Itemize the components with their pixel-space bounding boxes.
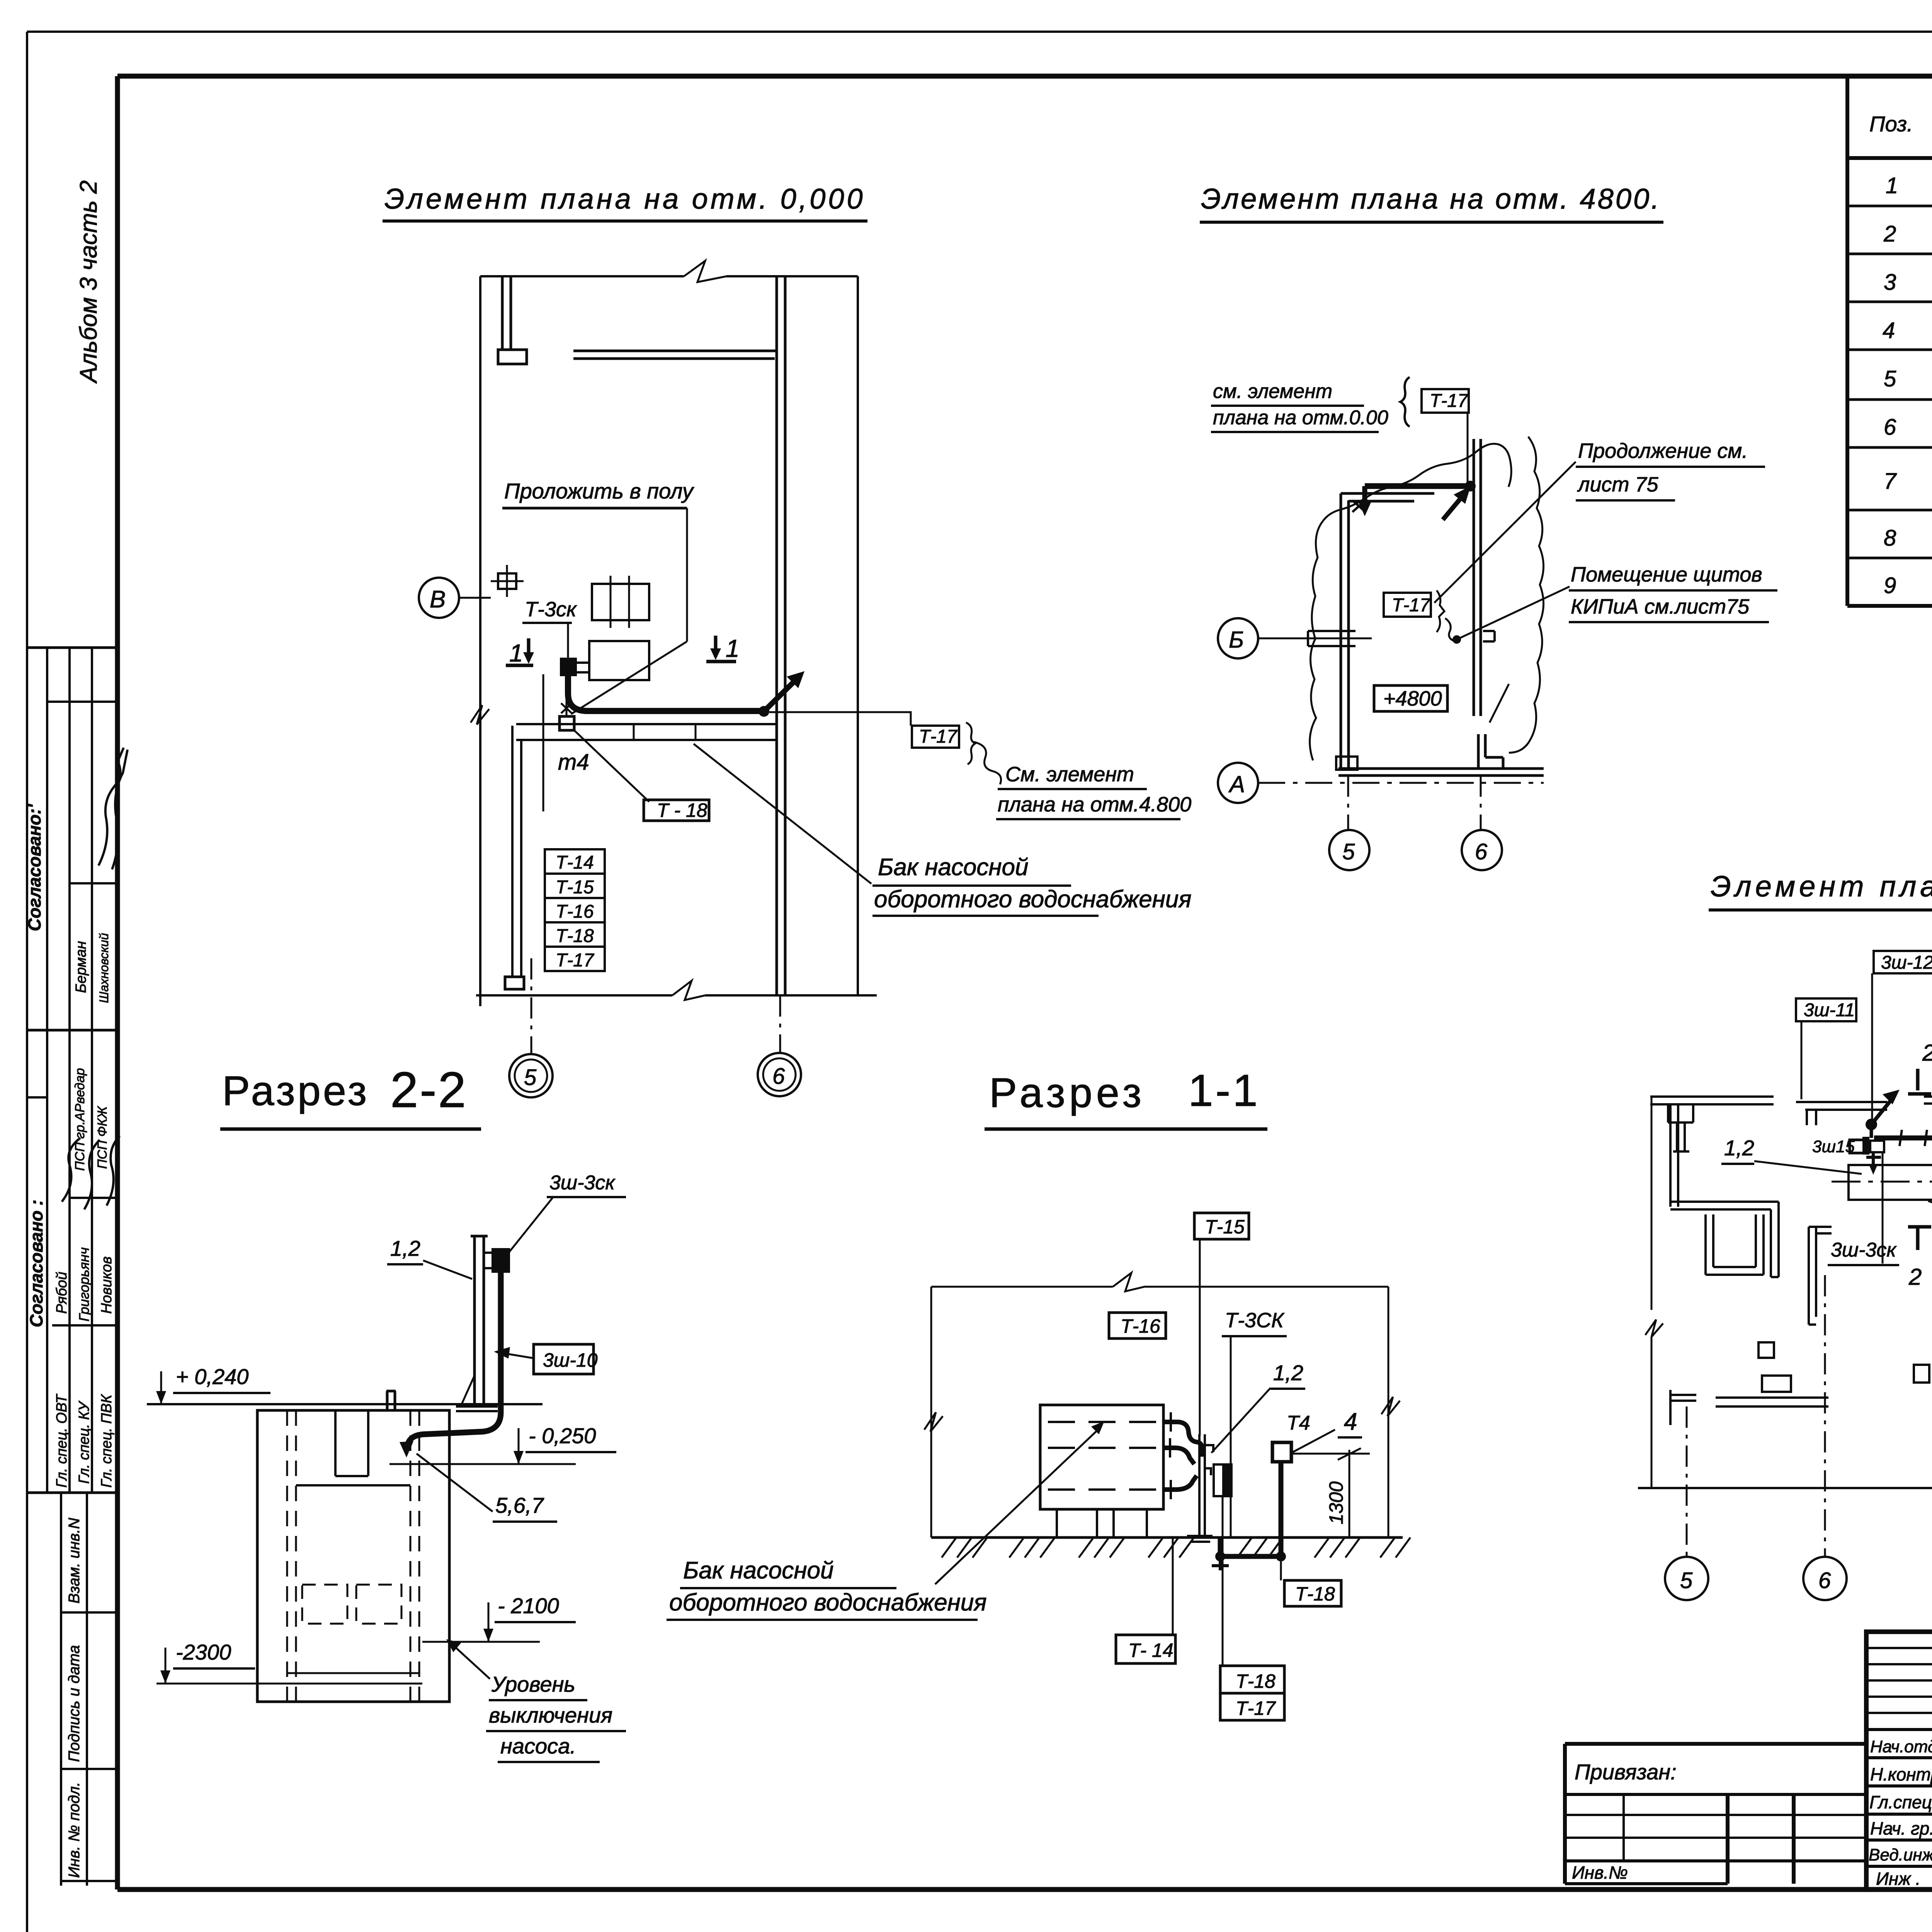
grid 6 dash 4800 <box>1480 776 1482 830</box>
svg-text:3ш-12: 3ш-12 <box>1881 952 1932 973</box>
top wall segment B <box>1796 1102 1887 1110</box>
label 567 leader <box>417 1454 493 1512</box>
pipe diagonal arrow <box>1443 494 1464 520</box>
bak top double line <box>516 724 777 740</box>
uroven leader <box>449 1642 490 1679</box>
T-17 mid box <box>1384 593 1431 617</box>
privyazan row line 2 <box>1565 1814 1866 1816</box>
cable arrow diagonal <box>764 679 797 711</box>
ochistnye centerline <box>1832 1181 1932 1183</box>
privyazan bottom <box>1565 1882 1728 1885</box>
parts table row line 5 <box>1847 398 1932 401</box>
svg-text:Разрез: Разрез <box>989 1069 1145 1116</box>
fitting side line <box>1882 1152 1884 1264</box>
sm element underline1 <box>1211 405 1364 407</box>
svg-text:2: 2 <box>1922 1040 1932 1066</box>
sidebar line 7 <box>52 1324 117 1327</box>
bak nasos underline s22 l2 <box>667 1619 978 1621</box>
grid 5 circle right <box>1665 1557 1708 1600</box>
crossed equipment rect <box>592 584 649 620</box>
stand foot brace <box>461 1376 474 1406</box>
T-18 label box <box>644 800 709 821</box>
tank bottom inner line <box>287 1672 419 1674</box>
cable junction dot <box>759 706 769 717</box>
sidebar line 6 <box>70 1197 117 1199</box>
pipe cross ticks <box>1170 1412 1171 1499</box>
svg-text:5: 5 <box>1680 1568 1693 1593</box>
svg-text:Т-15: Т-15 <box>556 877 594 898</box>
tb thin row 2 <box>1866 1663 1932 1665</box>
svg-text:лист 75: лист 75 <box>1577 473 1659 496</box>
svg-text:- 0,250: - 0,250 <box>529 1423 596 1448</box>
lower horizontal bar <box>1716 1398 1828 1406</box>
svg-text:Разрез: Разрез <box>222 1067 369 1114</box>
svg-text:Т-17: Т-17 <box>1392 595 1431 616</box>
sm element underline2 <box>1211 431 1379 433</box>
rail junction stem <box>1870 1124 1873 1138</box>
svg-text:Т-14: Т-14 <box>556 852 594 873</box>
bak dash line 1 <box>1048 1421 1157 1423</box>
pillar top left double line <box>502 276 511 350</box>
pipe hook arrowhead <box>1358 502 1371 516</box>
sidebar table line top <box>28 646 117 649</box>
cable thick <box>568 675 760 711</box>
label boxes column <box>545 849 605 971</box>
zsh12 box 1 <box>1874 951 1932 973</box>
rail junction dot <box>1866 1119 1877 1130</box>
label 12 underline s11 <box>1270 1388 1305 1390</box>
small square a <box>1759 1342 1774 1358</box>
section mark 1 right arrow <box>706 636 736 662</box>
signature squiggle 2 <box>112 750 128 869</box>
T-17 mid brace <box>1437 590 1444 632</box>
pipe horizontal connect <box>511 726 514 740</box>
svg-text:+4800: +4800 <box>1383 687 1442 710</box>
svg-text:6: 6 <box>772 1064 785 1089</box>
dim line top s11 <box>931 1286 1388 1288</box>
level +0240 underline <box>173 1392 270 1394</box>
zsh11 box <box>1796 998 1856 1021</box>
svg-text:Нач. гр.: Нач. гр. <box>1870 1818 1932 1838</box>
level -0250 arrowhead <box>514 1451 524 1464</box>
svg-text:Альбом 3 часть 2: Альбом 3 часть 2 <box>75 180 102 384</box>
underground pipe horizontal <box>1220 1554 1281 1559</box>
svg-text:Уровень: Уровень <box>491 1672 575 1696</box>
svg-text:Взам. инв.N: Взам. инв.N <box>66 1518 83 1604</box>
svg-text:Т-18: Т-18 <box>1236 1670 1276 1692</box>
svg-text:-2300: -2300 <box>176 1640 231 1664</box>
T-3sk drop line s11 <box>1230 1336 1232 1537</box>
svg-text:2-2: 2-2 <box>390 1061 468 1118</box>
svg-text:3ш-11: 3ш-11 <box>1804 1000 1855 1020</box>
dim right break <box>1381 1397 1400 1416</box>
svg-text:1: 1 <box>509 639 523 667</box>
svg-text:Т-17: Т-17 <box>919 726 958 747</box>
ochistnye rect <box>1849 1165 1932 1200</box>
level -0250 datum <box>389 1463 576 1465</box>
level -2300 tick <box>165 1648 167 1684</box>
svg-text:Гл. спец. ОВТ: Гл. спец. ОВТ <box>54 1393 70 1488</box>
cloud outline <box>1310 437 1544 760</box>
grid B line 4800 <box>1258 638 1372 639</box>
parts table row line 1 <box>1847 205 1932 207</box>
svg-text:Т-15: Т-15 <box>1205 1216 1245 1238</box>
svg-text:Б: Б <box>1229 627 1244 653</box>
section 2-2 underline <box>220 1128 481 1131</box>
label 4 underline <box>1338 1436 1362 1439</box>
svg-text:Инв.№: Инв.№ <box>1572 1862 1628 1883</box>
svg-text:4: 4 <box>1883 318 1895 343</box>
wall B left pillar <box>1807 1110 1816 1125</box>
ground hatch group4 <box>1148 1537 1194 1558</box>
dim 1300 line <box>1349 1450 1350 1537</box>
section mark 2 bottom <box>1908 1227 1931 1250</box>
grid 6 circle outer <box>758 1053 801 1096</box>
main frame left <box>115 76 120 1889</box>
sm element underline1 <box>998 788 1147 790</box>
section 1-1 underline <box>985 1128 1267 1131</box>
pomeshenie leader line <box>1457 587 1570 639</box>
stand post double <box>471 1236 488 1403</box>
svg-text:Поз.: Поз. <box>1869 112 1913 136</box>
fitting cluster <box>1850 1140 1867 1153</box>
fitting box a <box>1862 1137 1869 1155</box>
small square b <box>1914 1365 1929 1383</box>
T-14 box s11 <box>1116 1635 1175 1663</box>
svg-text:Проложить в полу: Проложить в полу <box>504 479 694 503</box>
device bracket <box>484 1253 492 1268</box>
wall 6 double line a <box>776 276 778 995</box>
T-17 drop line <box>1467 413 1469 483</box>
tb thin row 5 <box>1866 1712 1932 1714</box>
zsh3sk underline right plan <box>1828 1264 1899 1266</box>
prolozhit drop line <box>686 508 688 641</box>
wall A left pillar <box>1668 1104 1693 1122</box>
right wall tick <box>1483 631 1495 641</box>
beam double line <box>573 351 777 359</box>
prodolzhenie underline2 <box>1576 499 1675 502</box>
pipe thick horizontal <box>1365 483 1468 489</box>
bak nasos leader arrow tip <box>1091 1421 1104 1434</box>
T-17 squiggle leader <box>974 742 1001 784</box>
plan bottom edge <box>476 994 877 997</box>
fitting drop <box>1866 1153 1881 1171</box>
sensor cable down <box>1279 1462 1284 1556</box>
section mark 1 left arrowhead <box>523 652 534 664</box>
svg-text:т4: т4 <box>558 750 589 775</box>
svg-text:1,2: 1,2 <box>1273 1361 1303 1385</box>
tank top opening <box>335 1410 368 1476</box>
sidebar line 4 <box>28 1029 117 1032</box>
label 1 2 leader s22 <box>423 1260 472 1279</box>
svg-text:ПСП гр.АРведар: ПСП гр.АРведар <box>73 1068 87 1171</box>
bottom edge break mark <box>672 981 705 1000</box>
svg-text:Н.контр.: Н.контр. <box>1870 1764 1932 1784</box>
uroven underline l3 <box>498 1761 600 1763</box>
svg-text:Т - 18: Т - 18 <box>657 799 707 821</box>
sidebar line 5 <box>28 1096 47 1099</box>
tb name row line 1 <box>1866 1756 1932 1759</box>
svg-text:6: 6 <box>1475 839 1488 864</box>
parts table row line 7 <box>1847 509 1932 512</box>
ochistnye leader <box>1928 1201 1932 1227</box>
ground hatch group5 <box>1237 1537 1283 1558</box>
floor small stub <box>386 1391 396 1411</box>
sidebar line 2 <box>47 701 117 703</box>
rail arrowhead <box>1883 1090 1900 1104</box>
sidebar lower line 1 <box>61 1611 117 1614</box>
dim line break <box>1113 1273 1145 1291</box>
level +0240 tick <box>160 1371 162 1404</box>
svg-text:Согласовано:': Согласовано:' <box>24 803 44 931</box>
pipe diagonal arrowhead <box>1454 486 1471 504</box>
grid 5 circle 4800 <box>1329 830 1369 870</box>
tb name row line 2 <box>1866 1784 1932 1787</box>
pipe foot pad <box>505 977 524 989</box>
T-18 box2 <box>545 922 605 947</box>
svg-text:1: 1 <box>1886 173 1898 198</box>
tb thin row 4 <box>1866 1696 1932 1698</box>
prolozhit leader to t4 <box>571 641 687 714</box>
level +0240 arrowhead <box>156 1391 166 1404</box>
transmitter stub <box>577 663 589 672</box>
title right underline <box>1709 908 1932 912</box>
transmitter frame s11 <box>1214 1464 1231 1496</box>
grid A circle 4800 <box>1218 763 1258 803</box>
cable arrowhead <box>787 671 804 688</box>
pomeshenie leader dot <box>1452 635 1461 644</box>
sidebar col line a <box>46 648 48 1493</box>
parts table row line 3 <box>1847 301 1932 303</box>
bak leader diagonal <box>694 744 871 884</box>
svg-text:Т-3СК: Т-3СК <box>1225 1309 1285 1332</box>
level -2300 underline <box>173 1667 255 1670</box>
svg-text:насоса.: насоса. <box>500 1734 576 1758</box>
sidebar line 3 <box>70 882 117 884</box>
privyazan table left <box>1563 1744 1567 1884</box>
main frame bottom <box>117 1887 1932 1892</box>
tb name row line 5 <box>1866 1865 1932 1868</box>
underground junction dot left <box>1215 1551 1225 1561</box>
svg-text:Берман: Берман <box>73 941 89 993</box>
svg-text:6: 6 <box>1818 1568 1831 1593</box>
pomeshenie underline2 <box>1569 621 1769 623</box>
bak label underline1 <box>872 884 1071 887</box>
T-14 box <box>545 849 605 874</box>
privyazan table top <box>1565 1742 1866 1746</box>
pipe curve 2 <box>1163 1448 1194 1464</box>
pipe curve 3 <box>1163 1476 1197 1490</box>
bak divider ticks <box>634 724 696 740</box>
zsh3sk underline s22 <box>547 1196 626 1198</box>
grid 6 circle 4800 <box>1462 830 1502 870</box>
svg-text:Бак насосной: Бак насосной <box>878 854 1029 881</box>
t3sk underline <box>522 622 572 624</box>
stand spine s11 <box>1199 1434 1205 1536</box>
privyazan col 1 <box>1622 1794 1625 1861</box>
svg-text:Бак насосной: Бак насосной <box>683 1557 834 1584</box>
left building wall horizontal <box>1670 1202 1779 1209</box>
outer thin border top <box>27 31 1932 33</box>
bak dash line 3 <box>1048 1488 1157 1491</box>
sidebar block2 bottom <box>28 1492 117 1494</box>
parts table bottom <box>1847 604 1932 608</box>
dim right boundary <box>1388 1287 1389 1537</box>
svg-text:плана на отм.4.800: плана на отм.4.800 <box>998 793 1191 816</box>
parts table left edge <box>1845 76 1849 606</box>
T-18 leader <box>574 730 649 802</box>
privyazan row line 3 <box>1565 1837 1866 1839</box>
svg-text:+ 0,240: + 0,240 <box>176 1364 248 1389</box>
svg-text:Т-17: Т-17 <box>1430 391 1469 411</box>
svg-text:А: А <box>1228 771 1245 797</box>
svg-text:Гл. спец. КУ: Гл. спец. КУ <box>76 1400 92 1484</box>
title 4800 underline <box>1200 221 1663 224</box>
crossed equipment inner lines <box>611 576 629 628</box>
signature squiggle 5 <box>107 1136 120 1206</box>
svg-text:В: В <box>430 586 446 613</box>
sidebar lower col a <box>60 1493 62 1886</box>
parts table row line 8 <box>1847 557 1932 560</box>
svg-text:3ш-3ск: 3ш-3ск <box>549 1172 616 1194</box>
privyazan row line 1 <box>1565 1793 1866 1796</box>
rail cross ticks <box>1900 1130 1932 1146</box>
t4 x tick <box>561 703 572 713</box>
svg-text:Элемент плана на отм. 0,000: Элемент плана на отм. 0,000 <box>384 183 866 215</box>
ground hatch group1 <box>942 1537 987 1558</box>
top wall segment A <box>1650 1097 1774 1104</box>
uroven underline l2 <box>486 1730 626 1732</box>
left wall break mark <box>471 705 489 724</box>
uroven arrowhead <box>446 1639 461 1652</box>
plan bottom line <box>1638 1487 1932 1489</box>
svg-text:1-1: 1-1 <box>1188 1065 1260 1116</box>
sidebar lower line 2 <box>61 1768 117 1770</box>
privyazan col 2 <box>1726 1794 1730 1884</box>
svg-text:оборотного водоснабжения: оборотного водоснабжения <box>669 1589 987 1616</box>
floor line s22 <box>147 1403 543 1405</box>
pillar pad <box>498 350 527 364</box>
tb name row line 4 <box>1866 1838 1932 1842</box>
svg-text:Помещение щитов: Помещение щитов <box>1571 563 1762 586</box>
parts table header bottom <box>1847 156 1932 160</box>
sidebar col line c <box>91 648 93 1493</box>
svg-text:1300: 1300 <box>1325 1481 1347 1524</box>
plus4800 box <box>1374 685 1447 711</box>
transmitter black box <box>560 658 577 676</box>
svg-text:Продолжение см.: Продолжение см. <box>1578 439 1748 463</box>
window U shape <box>1706 1214 1764 1275</box>
T-14 drop line <box>1172 1537 1174 1635</box>
level -0250 underline <box>526 1451 616 1453</box>
tank inner wall left dashed <box>287 1410 296 1702</box>
leader to T-17 box right <box>769 712 911 726</box>
room bottom wall double <box>1338 769 1544 776</box>
tank outer rect <box>257 1410 449 1702</box>
svg-text:Согласовано :: Согласовано : <box>26 1200 46 1328</box>
plan top edge <box>480 275 858 277</box>
grid B circle <box>419 578 459 618</box>
tb name row line 3 <box>1866 1813 1932 1816</box>
svg-text:Гл. спец. ПВК: Гл. спец. ПВК <box>99 1394 115 1488</box>
svg-text:5: 5 <box>1884 366 1896 391</box>
stand foot <box>456 1406 498 1411</box>
T-16 box <box>545 898 605 922</box>
label 567 underline <box>493 1520 557 1523</box>
svg-text:Т-3ск: Т-3ск <box>525 598 577 621</box>
svg-text:5: 5 <box>524 1065 537 1090</box>
prodolzhenie leader <box>1434 462 1576 603</box>
signature squiggle 4 <box>84 1140 100 1209</box>
level -2100 arrowhead <box>483 1629 493 1642</box>
svg-text:ПСП ФКЖ: ПСП ФКЖ <box>95 1106 110 1169</box>
sensor square s11 <box>1272 1442 1291 1462</box>
signature squiggle 3 <box>62 1138 80 1202</box>
label 1 2 underline s22 <box>387 1263 423 1265</box>
right wall <box>857 276 859 995</box>
rail thick line <box>1874 1136 1932 1141</box>
T-3sk underline s11 <box>1222 1335 1287 1337</box>
svg-text:Вед.инж: Вед.инж <box>1869 1845 1932 1864</box>
svg-text:6: 6 <box>1884 415 1896 440</box>
section mark 1 left arrow <box>506 638 533 665</box>
T-17 label box right <box>912 726 959 748</box>
svg-text:Т4: Т4 <box>1287 1412 1310 1434</box>
underground junction dot right <box>1276 1551 1286 1561</box>
bak rect s11 <box>1040 1405 1163 1509</box>
dim 1300 tick top <box>1338 1448 1361 1460</box>
riser line to label boxes <box>543 674 544 811</box>
svg-text:8: 8 <box>1884 526 1896 551</box>
svg-text:Григорьянч: Григорьянч <box>76 1247 92 1321</box>
pomeshenie leader squiggle <box>1445 618 1455 641</box>
svg-text:3ш-3ск: 3ш-3ск <box>1831 1239 1897 1261</box>
small rect d <box>1762 1376 1791 1392</box>
t4 square <box>560 716 574 730</box>
svg-text:выключения: выключения <box>489 1703 612 1727</box>
tank inner horizontal <box>296 1484 410 1486</box>
tank dashed box 2 <box>356 1585 401 1624</box>
svg-text:Инв. № подл.: Инв. № подл. <box>66 1782 83 1878</box>
room left wall double <box>1341 493 1349 771</box>
svg-text:7: 7 <box>1884 469 1897 494</box>
pipe junction dot <box>1465 481 1476 492</box>
svg-text:Т- 14: Т- 14 <box>1128 1639 1173 1661</box>
wall below vertical double <box>1809 1227 1832 1325</box>
grid 5 dash line <box>531 958 532 1054</box>
svg-text:1,2: 1,2 <box>390 1236 420 1260</box>
title block outer box <box>1866 1632 1932 1889</box>
svg-text:Новиков: Новиков <box>99 1257 115 1314</box>
level -0250 tick <box>518 1428 520 1464</box>
T-17 brace <box>966 723 975 764</box>
underground pipe vertical <box>1218 1537 1223 1556</box>
level -2300 datum <box>156 1683 422 1685</box>
top edge break mark <box>684 261 726 282</box>
wall A hanging stem <box>1673 1122 1689 1151</box>
svg-text:Т-18: Т-18 <box>1295 1583 1335 1605</box>
section mark 1 right arrowhead <box>710 648 721 660</box>
svg-text:плана на отм.0.00: плана на отм.0.00 <box>1213 406 1388 429</box>
fitting drop arrow <box>1869 1164 1878 1175</box>
dim left break <box>924 1412 943 1432</box>
svg-text:КИПиА см.лист75: КИПиА см.лист75 <box>1571 595 1750 618</box>
bak legs <box>1057 1509 1147 1537</box>
svg-text:Т-18: Т-18 <box>556 926 594 946</box>
zsh10 box <box>534 1344 594 1374</box>
grid B circle 4800 <box>1218 618 1258 658</box>
underground tick <box>1212 1556 1229 1570</box>
